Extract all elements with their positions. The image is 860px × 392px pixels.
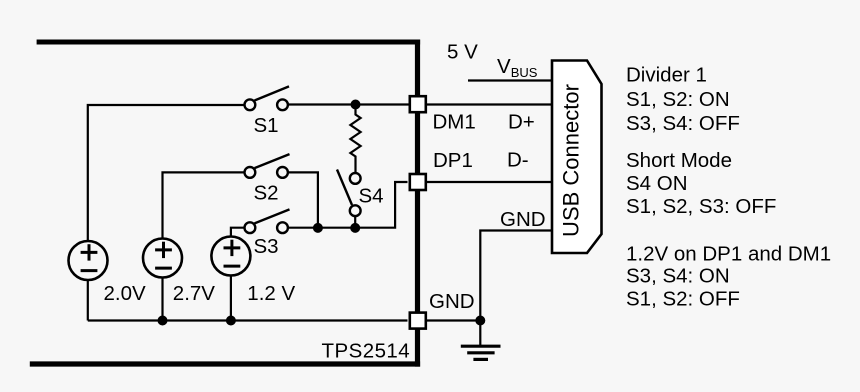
voltage source V3 1.2V [211,237,250,276]
wire S1 right to DM1 pin [289,103,410,105]
ground symbol [461,321,501,360]
svg-text:1.2V on DP1 and DM1: 1.2V on DP1 and DM1 [626,243,831,266]
wire ground node up to connector GND [480,231,552,321]
svg-text:DM1: DM1 [433,111,476,134]
svg-text:GND: GND [500,208,546,231]
switch S3 [245,209,290,233]
svg-text:S2: S2 [254,182,279,205]
wire bottom rail S3 to DP1 pin [289,182,408,228]
wire V3 bottom to rail [230,276,232,321]
junction dot rail at V3 [226,316,236,326]
svg-text:D+: D+ [508,111,535,134]
svg-text:2.0V: 2.0V [104,282,146,305]
svg-text:Short Mode: Short Mode [626,149,732,172]
pin GND square [410,313,426,329]
switch S4 [337,170,361,217]
svg-text:S3: S3 [254,235,279,258]
junction dot DM1 wire / resistor top [351,100,361,110]
svg-text:5 V: 5 V [447,41,478,64]
junction dot bottom rail at S2 branch [313,223,323,233]
junction dot ground node [475,316,485,326]
switch S1 [245,86,290,110]
junction dot rail at V2 [158,316,168,326]
svg-text:S3, S4: ON: S3, S4: ON [626,264,730,287]
wire VBUS to connector [468,79,552,81]
svg-text:2.7V: 2.7V [173,282,215,305]
switch S2 [245,154,290,178]
IC TPS2514 outline right thick line [415,40,420,367]
wire S3 net left: to 1.2V source top [231,228,244,237]
svg-text:1.2 V: 1.2 V [247,282,295,305]
svg-text:S4 ON: S4 ON [626,172,688,195]
svg-text:GND: GND [429,290,475,313]
wire V1 bottom to rail [87,280,89,321]
resistor R1 [350,105,360,173]
svg-text:Divider 1: Divider 1 [626,64,707,87]
svg-text:S4: S4 [359,185,384,208]
IC TPS2514 outline bottom thick line [30,361,420,366]
svg-text:TPS2514: TPS2514 [322,340,411,363]
USB connector body [552,61,602,254]
svg-text:S1, S2: OFF: S1, S2: OFF [626,287,740,310]
wire S2 right down to bottom rail [289,172,318,228]
wire S1 net left: from S1 left to 2.0V source top [88,105,244,241]
wire S4 bottom to rail [354,216,356,228]
svg-text:USB Connector: USB Connector [559,84,584,237]
svg-text:S1, S2, S3: OFF: S1, S2, S3: OFF [626,195,776,218]
wire V2 bottom to rail [161,278,163,321]
svg-text:S1: S1 [254,114,279,137]
pin DP1 square [410,174,426,190]
svg-text:DP1: DP1 [433,149,473,172]
voltage source V2 2.7V [143,239,182,278]
wire bottom source rail to GND pin [88,319,408,321]
wire S2 net left: from S2 left to 2.7V source top [163,172,244,238]
wire D- DP1 to connector [427,181,552,183]
IC TPS2514 outline top thick line [37,40,421,45]
svg-text:D-: D- [507,149,529,172]
voltage source V1 2.0V [69,241,108,280]
junction dot bottom rail at S4 [350,223,360,233]
wire GND pin to ground node [427,319,481,321]
svg-text:S3, S4: OFF: S3, S4: OFF [626,112,740,135]
pin DM1 square [410,96,426,112]
svg-text:S1, S2: ON: S1, S2: ON [626,88,730,111]
wire D+ DM1 to connector [427,103,552,105]
